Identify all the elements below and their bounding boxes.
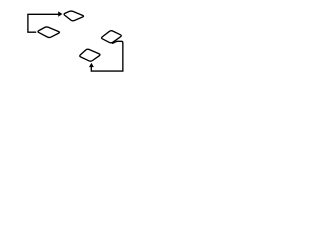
node S4 <box>80 49 100 61</box>
node S1 <box>64 11 83 21</box>
node S2 <box>38 27 60 38</box>
node S3 <box>102 31 122 43</box>
wire <box>28 14 59 32</box>
arrowhead into S4 <box>89 63 94 67</box>
wire <box>91 41 123 71</box>
arrowhead into S1 <box>58 11 62 16</box>
